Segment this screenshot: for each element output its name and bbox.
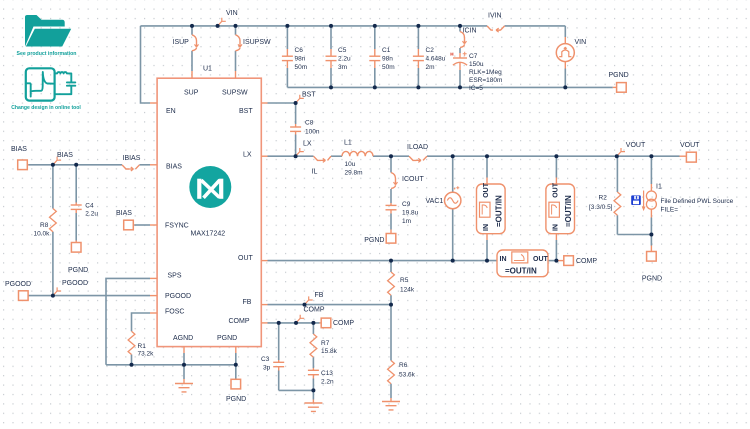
wire C6 column [286, 26, 288, 49]
wire FOSC loop [132, 313, 151, 331]
svg-text:LX: LX [303, 141, 312, 148]
svg-text:BST: BST [302, 92, 316, 99]
net flag BIAS [53, 157, 61, 165]
probe ISUP [192, 35, 199, 51]
svg-text:BIAS: BIAS [57, 152, 73, 159]
voltage source VIN [556, 37, 574, 69]
svg-text:R7: R7 [321, 340, 330, 347]
svg-text:COMP: COMP [229, 318, 250, 325]
pin COMP stub [261, 322, 267, 324]
svg-text:R6: R6 [399, 362, 408, 369]
svg-text:ILOAD: ILOAD [407, 144, 428, 151]
probe ICOUT [391, 173, 398, 189]
pin PGND stub [235, 347, 237, 353]
svg-text:R2: R2 [599, 195, 608, 202]
svg-text:PGOOD: PGOOD [62, 280, 88, 287]
svg-text:VIN: VIN [575, 39, 587, 46]
svg-text:2.2u: 2.2u [338, 56, 351, 63]
svg-text:OUT: OUT [238, 255, 254, 262]
svg-text:EN: EN [166, 108, 176, 115]
pin SUP stub [191, 71, 193, 78]
port PGND (IC) [231, 379, 241, 389]
svg-text:OUT: OUT [483, 182, 490, 198]
port PGND (C9) [386, 230, 396, 244]
probe IBIAS [122, 165, 140, 171]
svg-text:File Defined PWL Source: File Defined PWL Source [661, 198, 734, 205]
svg-text:73.2k: 73.2k [138, 351, 155, 358]
svg-text:PGOOD: PGOOD [165, 293, 191, 300]
svg-text:OUT: OUT [533, 256, 549, 263]
svg-text:98n: 98n [295, 56, 306, 63]
svg-text:C9: C9 [402, 201, 411, 208]
port COMP (right) [557, 256, 573, 266]
svg-text:1m: 1m [402, 218, 411, 225]
wire C1 column [374, 26, 376, 49]
svg-text:FILE=: FILE= [661, 207, 679, 214]
wire VIN top rail [141, 25, 488, 27]
port PGND (I1) [647, 246, 657, 262]
svg-text:LX: LX [243, 152, 252, 159]
net flag BST [296, 95, 304, 103]
net flag PGOOD [53, 287, 61, 295]
svg-text:PGOOD: PGOOD [5, 281, 31, 288]
svg-text:150u: 150u [469, 61, 484, 68]
wire SPS loop [106, 278, 150, 364]
wire FB rail [268, 304, 392, 306]
svg-text:R1: R1 [138, 343, 147, 350]
wire VAC1 column [452, 156, 454, 192]
svg-text:50m: 50m [382, 64, 395, 71]
pin EN stub [150, 102, 157, 104]
svg-text:SUP: SUP [184, 90, 199, 97]
capacitor C13 [308, 368, 319, 379]
svg-text:PGND: PGND [609, 72, 629, 79]
wire COMP rail [268, 322, 320, 324]
pin BST stub [261, 102, 267, 104]
svg-text:PGND: PGND [364, 237, 384, 244]
wire R7 column [312, 323, 314, 334]
wire I1 column [650, 156, 652, 184]
svg-text:R8: R8 [40, 222, 49, 229]
svg-text:RLK=1Meg: RLK=1Meg [469, 69, 502, 76]
wire R1 bottom [131, 355, 133, 365]
capacitor C9 [386, 203, 397, 214]
svg-text:IN: IN [500, 256, 507, 263]
logo Maxim [189, 166, 231, 208]
wire R5 column [390, 261, 392, 272]
svg-text:C7: C7 [469, 53, 478, 60]
node C3/R7 bottom junction [311, 388, 315, 392]
svg-text:PGND: PGND [226, 396, 246, 403]
svg-text:COMP: COMP [304, 307, 325, 314]
capacitor C5 [326, 49, 337, 68]
svg-text:VIN: VIN [226, 10, 238, 17]
svg-text:ESR=180m: ESR=180m [469, 77, 502, 84]
svg-text:PGND: PGND [217, 335, 237, 342]
icon scope "Change design in online tool" [26, 68, 76, 100]
node LX rail junctions [294, 154, 298, 158]
wire BIAS rail [29, 164, 123, 166]
svg-text:C5: C5 [338, 47, 347, 54]
capacitor C3 [273, 360, 284, 371]
wire C3 column [278, 323, 280, 360]
resistor R1 [128, 331, 135, 354]
svg-text:BIAS: BIAS [11, 146, 27, 153]
svg-text:C1: C1 [382, 47, 391, 54]
svg-text:IVIN: IVIN [488, 13, 502, 20]
svg-text:MAX17242: MAX17242 [191, 231, 226, 238]
wire block2 column [555, 156, 557, 177]
pin SPS stub [150, 277, 157, 279]
svg-text:=OUT/IN: =OUT/IN [564, 195, 573, 227]
op-amp U1 MAX17242 body [157, 78, 261, 346]
port COMP (IC side) [320, 318, 331, 328]
wire OUT rail [268, 260, 498, 262]
pin SUPSW stub [235, 71, 237, 78]
node BST junction [294, 101, 298, 105]
svg-text:10u: 10u [345, 161, 356, 168]
svg-text:L1: L1 [344, 140, 352, 147]
capacitor C6 [282, 49, 293, 68]
probe ICIN [460, 32, 467, 48]
node I1 bottom junction [649, 233, 653, 237]
wire C3 bottom rail [279, 389, 314, 391]
resistor R7 [310, 334, 317, 357]
svg-text:IN: IN [552, 224, 559, 231]
pin PGOOD stub [150, 295, 157, 297]
pin OUT stub [261, 260, 267, 262]
svg-text:SUPSW: SUPSW [222, 90, 248, 97]
node PGOOD junction [51, 294, 55, 298]
capacitor C2 [413, 49, 424, 68]
wire ISUP column [191, 26, 193, 35]
svg-text:Change design in online tool: Change design in online tool [11, 105, 81, 111]
svg-text:19.8u: 19.8u [402, 210, 419, 217]
wire AGND rail [106, 364, 236, 366]
svg-text:R5: R5 [400, 277, 409, 284]
pin LX stub [261, 155, 267, 157]
wire VIN source column [564, 26, 566, 37]
net flag VIN [218, 18, 226, 26]
ground (R7/C13) [304, 400, 322, 412]
wire LX rail [268, 155, 314, 157]
icon folder "See product information" [25, 15, 71, 47]
wire PGND pin column [235, 353, 237, 379]
svg-text:IC=5: IC=5 [469, 85, 483, 92]
capacitor C4 [71, 203, 82, 214]
capacitor C7 electrolytic [451, 52, 467, 70]
svg-text:FSYNC: FSYNC [165, 223, 189, 230]
pin FB stub [261, 304, 267, 306]
wire block1 column [486, 156, 488, 177]
node AGND rail junctions [130, 363, 134, 367]
wire ICOUT / C9 column [390, 156, 392, 172]
wire PGOOD rail [29, 295, 151, 297]
svg-text:15.8k: 15.8k [321, 348, 338, 355]
svg-text:ICIN: ICIN [463, 27, 477, 34]
svg-text:SPS: SPS [168, 272, 182, 279]
svg-text:IBIAS: IBIAS [123, 155, 141, 162]
svg-text:=OUT/IN: =OUT/IN [505, 267, 537, 276]
wire R2 to I1 bottom [617, 234, 651, 236]
svg-text:COMP: COMP [333, 320, 354, 327]
port BIAS (FSYNC) [124, 220, 135, 230]
resistor R8 [50, 209, 57, 232]
svg-text:C4: C4 [85, 203, 94, 210]
resistor R6 [388, 361, 395, 384]
svg-text:See product information: See product information [17, 51, 77, 57]
source VAC1 [445, 186, 461, 209]
svg-text:BST: BST [239, 108, 253, 115]
resistor R2 [614, 192, 621, 215]
port VOUT [680, 152, 697, 162]
port PGOOD [19, 291, 29, 301]
inductor L1 [342, 151, 373, 156]
wire ICIN / C7 column [459, 26, 461, 32]
probe IVIN (arrow left) [487, 26, 505, 32]
net flag LX [296, 148, 304, 156]
port PGND (top right) [613, 83, 626, 93]
svg-text:VAC1: VAC1 [426, 198, 444, 205]
wire BST [268, 102, 296, 104]
svg-text:3p: 3p [263, 364, 271, 371]
block =OUT/IN vertical 1 [477, 178, 506, 241]
svg-text:100n: 100n [305, 129, 320, 136]
capacitor C1 [369, 49, 380, 68]
svg-text:BIAS: BIAS [116, 210, 132, 217]
svg-text:2.2n: 2.2n [321, 379, 334, 386]
probe ILOAD [409, 156, 427, 162]
wire C8 column [295, 103, 297, 124]
svg-text:C13: C13 [321, 370, 333, 377]
net flag VOUT [617, 148, 625, 156]
svg-text:U1: U1 [203, 66, 212, 73]
svg-text:[3.3/0.5]: [3.3/0.5] [589, 204, 613, 211]
wire R2 column [616, 156, 618, 192]
probe IL [314, 156, 332, 162]
capacitor C8 [290, 124, 301, 135]
net flag COMP [296, 315, 304, 323]
net flag FB [305, 296, 313, 304]
svg-text:ISUP: ISUP [173, 39, 190, 46]
label OUT IN vertical block 1 [483, 182, 504, 231]
wire C2 column [417, 26, 419, 49]
node cap bottom rail junctions [329, 85, 333, 89]
svg-text:ICOUT: ICOUT [402, 176, 425, 183]
svg-text:C3: C3 [261, 356, 270, 363]
current source I1 [642, 184, 657, 218]
svg-text:3m: 3m [338, 64, 347, 71]
wire R8 column [52, 165, 54, 209]
svg-text:FB: FB [243, 299, 252, 306]
wire C5 column [330, 26, 332, 49]
wire R6 column [390, 305, 392, 361]
pin FOSC stub [150, 312, 157, 314]
port BIAS (left) [18, 160, 29, 170]
label OUT IN vertical block 2 [552, 182, 573, 231]
svg-text:IL: IL [312, 169, 318, 176]
pin BIAS stub [150, 164, 157, 166]
pin FSYNC stub [150, 224, 157, 226]
svg-text:4.648u: 4.648u [426, 56, 446, 63]
svg-text:BIAS: BIAS [166, 164, 182, 171]
svg-text:50m: 50m [295, 64, 308, 71]
svg-text:C2: C2 [426, 47, 435, 54]
svg-text:VOUT: VOUT [626, 142, 646, 149]
block =OUT/IN vertical 2 [546, 178, 575, 241]
resistor R5 [388, 272, 395, 295]
node FB junctions [303, 303, 307, 307]
svg-text:VOUT: VOUT [680, 142, 700, 149]
svg-text:PGND: PGND [642, 276, 662, 283]
port PGND (C4) [71, 241, 81, 253]
wire AGND column [183, 353, 185, 379]
node BIAS junctions [51, 163, 55, 167]
probe ISUPSW [236, 35, 243, 51]
ground (AGND) [175, 379, 193, 392]
floppy icon I1 [631, 195, 641, 205]
svg-text:C6: C6 [295, 47, 304, 54]
wire C4 column [75, 165, 77, 203]
svg-text:29.8m: 29.8m [345, 170, 363, 177]
svg-text:IN: IN [483, 224, 490, 231]
svg-text:=OUT/IN: =OUT/IN [495, 195, 504, 227]
node VIN rail junctions [190, 24, 194, 28]
wire ISUPSW column [235, 26, 237, 35]
svg-text:I1: I1 [656, 184, 662, 191]
wire cap bottom rail [287, 86, 612, 88]
svg-text:2m: 2m [426, 64, 435, 71]
wire FSYNC from port [135, 224, 151, 226]
svg-text:2.2u: 2.2u [85, 211, 98, 218]
svg-text:ISUPSW: ISUPSW [243, 39, 271, 46]
node OUT rail junctions [389, 259, 393, 263]
svg-text:53.6k: 53.6k [399, 372, 416, 379]
svg-text:98n: 98n [382, 56, 393, 63]
svg-text:COMP: COMP [576, 258, 597, 265]
pin AGND stub [183, 347, 185, 353]
block =OUT/IN horizontal [497, 250, 548, 277]
node COMP junctions [277, 321, 281, 325]
svg-text:10.0k: 10.0k [34, 231, 51, 238]
svg-text:PGND: PGND [68, 267, 88, 274]
svg-text:FB: FB [315, 292, 324, 299]
wire EN loop [141, 26, 151, 103]
svg-text:FOSC: FOSC [165, 309, 184, 316]
svg-text:AGND: AGND [173, 335, 193, 342]
svg-text:OUT: OUT [552, 182, 559, 198]
svg-text:124k: 124k [400, 287, 415, 294]
svg-text:C8: C8 [305, 120, 314, 127]
ground (R6) [382, 398, 400, 410]
